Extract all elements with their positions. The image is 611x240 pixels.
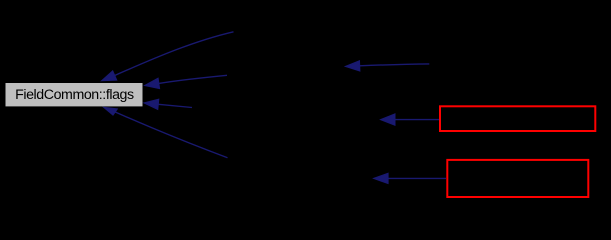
edge E7 (from red box 2) (374, 173, 446, 183)
edge E2 (short horizontal arrow mid-top) (345, 61, 429, 71)
edge E1 (curved, into node top) (102, 32, 234, 81)
edge E6 (from red box 1) (381, 114, 440, 125)
truncated node box 2 (red border) (447, 160, 588, 197)
svg-text:FieldCommon::flags: FieldCommon::flags (15, 87, 134, 103)
node FieldCommon::flags (6, 83, 143, 106)
edge E4 (short, into node right lower) (144, 99, 192, 109)
edge E3 (into node right upper) (145, 75, 228, 88)
truncated node box 1 (red border) (440, 106, 595, 131)
edge E5 (curved, into node bottom) (104, 107, 228, 157)
